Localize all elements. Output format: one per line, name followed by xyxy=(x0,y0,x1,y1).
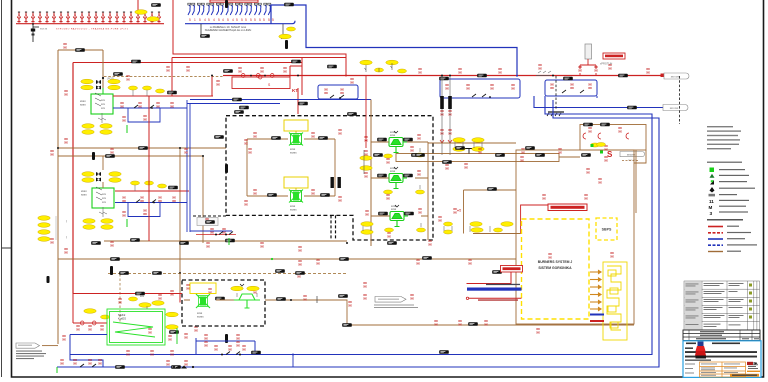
bus labels xyxy=(131,60,141,64)
strip 2 sensor ticks xyxy=(282,24,284,39)
svg-text:(: ( xyxy=(66,219,67,223)
svg-text:xxxxx: xxxxx xyxy=(290,208,297,211)
motor1 lower yellows xyxy=(82,124,94,129)
bottom blue loop circuit xyxy=(196,338,255,354)
title block blue company box xyxy=(683,341,761,378)
red feed left of box B xyxy=(150,293,182,295)
outer bus components left xyxy=(57,358,125,373)
svg-text:4: 4 xyxy=(232,18,234,22)
red contact cluster mid xyxy=(196,227,236,236)
legend symbol: 11 xyxy=(709,199,749,204)
legend line blue dashed xyxy=(708,244,757,245)
dashed partition xyxy=(192,215,226,217)
svg-text:4: 4 xyxy=(204,18,206,22)
red vertical left main xyxy=(72,63,74,294)
brown tail into box B top xyxy=(179,273,181,280)
bus link down xyxy=(292,355,294,368)
svg-text:SBPS: SBPS xyxy=(602,228,612,232)
svg-text:xxxxxxx: xxxxxxx xyxy=(627,154,636,157)
damper feeders brown xyxy=(371,142,428,240)
relay row components xyxy=(223,66,287,78)
left sensor column xyxy=(360,149,372,174)
strip 2 red labels xyxy=(189,18,274,22)
motor1 blue row xyxy=(113,107,187,109)
svg-text:5: 5 xyxy=(227,18,229,22)
brown vert x636 upper xyxy=(635,150,637,213)
red sensor riser xyxy=(365,76,367,148)
label on blue wire xyxy=(284,3,294,7)
strip 2 drop xyxy=(200,24,202,36)
brown vertical main left xyxy=(58,50,103,344)
motor group 2 xyxy=(92,187,114,208)
dashed drop right xyxy=(679,76,681,124)
terminal strip 2 (top centre, blue) xyxy=(188,3,271,15)
legend line red xyxy=(708,226,739,227)
svg-text:KotES: KotES xyxy=(118,317,126,321)
svg-text:5: 5 xyxy=(259,18,261,22)
boiler right yellows xyxy=(166,312,178,317)
dashed drop from bus to gnd xyxy=(555,76,557,110)
red riser x212 xyxy=(211,76,213,97)
red box under relay row xyxy=(232,75,290,89)
brown horizontal y243 xyxy=(104,240,347,242)
black junction dots xyxy=(57,75,451,275)
red link from label box to brown xyxy=(521,205,548,234)
brown bottom line y325 xyxy=(347,324,634,326)
legend line blue xyxy=(708,238,745,239)
burner arrows orange xyxy=(590,271,601,311)
frame outer left line xyxy=(2,0,12,377)
brown link dampers to right xyxy=(428,142,516,144)
blue wire from strip 2 to the right xyxy=(271,5,517,76)
svg-text:5: 5 xyxy=(208,18,210,22)
legend symbol: green square xyxy=(710,168,746,173)
blue flag xyxy=(663,105,688,111)
company logo red totem xyxy=(695,342,706,359)
burner blue bar xyxy=(590,314,604,316)
junction cluster on outer bus xyxy=(166,359,194,369)
gray cabinet top right xyxy=(585,44,592,59)
svg-text:KT: KT xyxy=(292,88,298,93)
notes text block xyxy=(707,126,742,163)
legend symbol: black dot device xyxy=(710,187,756,193)
svg-text:5: 5 xyxy=(272,18,274,22)
dashed enclosure B xyxy=(182,280,265,326)
ladder verticals xyxy=(247,139,335,196)
motor2 lower yellows xyxy=(83,219,95,224)
thick blue device bar xyxy=(467,288,522,291)
blue link mid xyxy=(190,230,232,232)
brown horizontal y148 xyxy=(58,147,226,149)
svg-text:5: 5 xyxy=(236,18,238,22)
svg-text:xxxx: xxxx xyxy=(390,170,396,173)
svg-text:1: 1 xyxy=(194,18,196,22)
red label box left of burners xyxy=(501,266,523,273)
red enclosure box around strip 2 xyxy=(173,0,346,76)
motor2 blue row xyxy=(115,202,187,204)
svg-text:xxxx: xxxx xyxy=(81,193,87,197)
motor2 red bus right xyxy=(115,190,189,192)
svg-text:xxxx: xxxx xyxy=(390,134,396,137)
brown link flag to bus xyxy=(42,345,58,347)
yellow pair x444 xyxy=(444,222,453,234)
red riser wiring top right xyxy=(580,59,596,76)
mid flag note centre xyxy=(374,297,418,309)
svg-text:M: M xyxy=(709,205,713,210)
motor2 blue loop xyxy=(128,203,160,217)
svg-text:5: 5 xyxy=(218,18,220,22)
pump valve unit xyxy=(231,284,260,308)
svg-text:5: 5 xyxy=(268,18,270,22)
red bus upper left xyxy=(73,62,302,64)
boiler heater red circuit xyxy=(73,294,180,324)
svg-text:xxxxx: xxxxx xyxy=(290,151,297,154)
strip 1 drop with fuse xyxy=(31,23,48,42)
green tick near flag xyxy=(600,151,603,154)
black label row y222 xyxy=(234,110,244,114)
svg-text:SISTEM GORIONIKA: SISTEM GORIONIKA xyxy=(538,266,572,270)
brown jog right of rect C xyxy=(634,150,646,163)
strip 2 rail xyxy=(185,21,295,24)
legend line red dashed xyxy=(708,232,751,233)
legend symbol: label box xyxy=(709,194,738,197)
black bars pair xyxy=(331,177,341,188)
brown vertical x203 xyxy=(202,156,204,243)
brown horizontal y255 xyxy=(58,258,516,260)
strip 1 rail xyxy=(16,23,164,25)
motor2 yellow pairs xyxy=(82,172,94,177)
blue page border inner xyxy=(70,96,652,355)
brown hub right of dampers xyxy=(464,190,521,234)
brown bus rect centre xyxy=(396,154,559,162)
brown horizontal y156 xyxy=(58,155,203,157)
yellow group lower centre xyxy=(470,222,513,233)
svg-text:S: S xyxy=(607,150,613,159)
left margin yellow cluster xyxy=(38,216,67,242)
yellow blob near flag xyxy=(597,143,606,147)
big brown rect right xyxy=(516,150,634,324)
legend symbol: triangle xyxy=(710,174,750,178)
red S symbol near flag xyxy=(604,144,613,162)
strip 1 feeder xyxy=(137,0,139,12)
red feed into burners left xyxy=(467,272,512,284)
red line box1 bottom xyxy=(172,57,346,59)
svg-text:5: 5 xyxy=(199,18,201,22)
legend lines heading xyxy=(707,219,743,221)
relay circuit blue RR xyxy=(545,80,597,98)
svg-text:4: 4 xyxy=(213,18,215,22)
svg-text:BURNERS SYSTEM J: BURNERS SYSTEM J xyxy=(538,260,573,264)
title block table A xyxy=(684,281,760,330)
motor2 feeder column xyxy=(96,156,103,188)
capacitor drops centre xyxy=(440,76,452,155)
brown rect top right xyxy=(580,125,646,151)
red riser x302 xyxy=(290,58,302,96)
burner ignition ladder yellow xyxy=(603,262,627,340)
burners yellow dashed box xyxy=(522,219,590,319)
strip 1 yellow labels xyxy=(135,10,147,15)
title block lower grid orange xyxy=(700,362,746,377)
dashed enclosure A xyxy=(226,116,433,240)
damper unit 1 xyxy=(284,120,308,133)
svg-text:5: 5 xyxy=(250,18,252,22)
boiler green box xyxy=(107,309,165,345)
motor group 1 xyxy=(91,93,113,114)
lower-left sensor pairs xyxy=(361,222,373,235)
motor1 feeder column xyxy=(96,80,103,94)
heater contact row xyxy=(73,309,110,332)
burner red bar xyxy=(590,320,604,322)
motor1 blue loop xyxy=(128,108,160,122)
svg-text:5: 5 xyxy=(189,18,191,22)
terminal strip 1 (top left, red) xyxy=(17,12,160,23)
SBPS dashed box xyxy=(596,218,617,240)
svg-text:5: 5 xyxy=(263,18,265,22)
svg-text:xxx xxx: xxx xxx xyxy=(671,76,680,79)
brown line y273 xyxy=(108,273,347,275)
air damper drive 3 xyxy=(365,205,425,238)
red sensing line xyxy=(466,297,521,301)
brown pump line y300 xyxy=(265,300,347,325)
legend symbol: M xyxy=(709,205,747,210)
svg-text:xxxxx: xxxxx xyxy=(197,315,204,318)
relay circuit blue R xyxy=(440,79,520,98)
svg-text:xxx xx: xxx xx xyxy=(40,28,48,31)
red label box top right xyxy=(603,53,625,59)
red flag right end xyxy=(664,73,689,79)
blue page border outer xyxy=(57,100,659,367)
motor1 green earth xyxy=(126,125,128,133)
svg-text:5: 5 xyxy=(254,18,256,22)
air damper drive 2 xyxy=(364,167,424,200)
svg-text:5: 5 xyxy=(241,18,243,22)
svg-text:xxx xxx: xxx xxx xyxy=(670,107,679,110)
bus junction hatch xyxy=(536,71,554,77)
air damper drive 1 xyxy=(364,131,424,164)
motor2 green earth xyxy=(126,219,128,227)
red C symbols in brown rect xyxy=(583,133,629,139)
red riser x149 xyxy=(148,96,150,241)
main red bus xyxy=(223,75,664,77)
red label box above yellow box xyxy=(548,204,587,211)
flag in brown rect xyxy=(620,152,645,162)
svg-text:STROJNO RAZVODILO - TRAZENA MX: STROJNO RAZVODILO - TRAZENA MX.PORE xPxT… xyxy=(56,28,129,31)
bottom centre black labels xyxy=(342,323,352,327)
motor1 red bus right xyxy=(113,95,213,97)
dashed tan vertical near pumps xyxy=(119,274,121,322)
legend symbol: 3 xyxy=(710,211,749,217)
brown vertical x180 xyxy=(179,148,181,300)
svg-text:xxxx: xxxx xyxy=(391,208,397,211)
yellow cluster right of relay box xyxy=(360,60,407,73)
brown damper feeder riser xyxy=(370,100,372,247)
relay circuit blue L xyxy=(318,85,358,99)
svg-text:11: 11 xyxy=(709,199,714,204)
boiler top yellows xyxy=(139,303,151,308)
blue top runs xyxy=(187,100,371,104)
svg-text:(: ( xyxy=(66,235,67,239)
motor1 yellow pairs xyxy=(81,79,93,84)
red label at top edge xyxy=(210,0,258,2)
svg-text:3: 3 xyxy=(710,211,713,217)
svg-text:4: 4 xyxy=(222,18,224,22)
legend line brown xyxy=(708,251,741,252)
damper unit 2 xyxy=(284,177,308,190)
blue drop to flag xyxy=(534,96,663,108)
svg-text:NxAZENAN HANxENTxqx1 Ex.xx.LI: NxAZENAN HANxENTxqx1 Ex.xx.LINZx xyxy=(205,28,252,32)
scattered small black labels xyxy=(91,34,593,369)
legend symbol: small valve xyxy=(710,180,747,185)
bottom blue bus components xyxy=(214,344,261,356)
red riser x298 xyxy=(297,88,299,114)
svg-text:5: 5 xyxy=(245,18,247,22)
white relay box left mid xyxy=(197,218,218,226)
black label and red near x445 xyxy=(442,160,452,164)
strip 1 black label xyxy=(151,3,161,7)
ground symbol xyxy=(547,112,564,116)
svg-text:xxxx: xxxx xyxy=(80,103,86,107)
pump fan unit xyxy=(190,283,225,318)
blue risers x187 xyxy=(187,100,190,232)
red riser x172 xyxy=(171,58,173,97)
right sensor pairs yellow xyxy=(453,138,465,152)
brown dashed under flag xyxy=(622,160,639,162)
scattered red wire labels xyxy=(50,63,650,356)
title block table B revision rows xyxy=(683,330,760,341)
left black ticks column xyxy=(92,0,288,343)
green earth mid xyxy=(228,238,230,245)
boiler blue inlet xyxy=(70,335,107,368)
tan dashed line xyxy=(104,76,223,78)
left white flag note xyxy=(16,343,46,359)
boiler right sensor column xyxy=(168,328,188,344)
